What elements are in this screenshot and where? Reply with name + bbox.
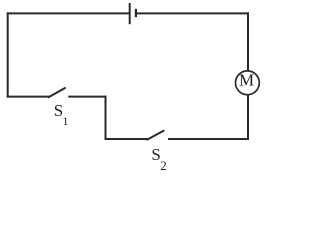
wire middle vertical (S1 branch down to S2 branch) (105, 97, 107, 139)
label S2 (151, 145, 166, 173)
motor M circle (236, 71, 260, 95)
wire S2 right lead (169, 138, 248, 140)
switch S1 blade (open) (49, 88, 66, 97)
switch S2 blade (open) (147, 131, 163, 140)
svg-text:M: M (239, 71, 254, 90)
wire top-left segment (top-left corner to battery positive plate) (8, 12, 130, 14)
label S1 (54, 101, 69, 128)
battery cell (long positive plate) (129, 3, 131, 24)
wire S1 right lead (69, 96, 105, 98)
wire right vertical upper (top-right corner down to motor) (247, 13, 249, 70)
wire S2 left lead (106, 138, 148, 140)
svg-text:1: 1 (63, 114, 69, 128)
wire right vertical lower (motor down to bottom-right corner) (247, 95, 249, 139)
battery cell (short negative plate) (135, 9, 137, 17)
wire left vertical (top-left corner down to switch S1 lead) (7, 13, 9, 96)
wire S1 left lead (8, 96, 49, 98)
svg-text:2: 2 (160, 158, 167, 173)
wire top-right segment (battery negative plate to top-right corner) (136, 12, 248, 14)
